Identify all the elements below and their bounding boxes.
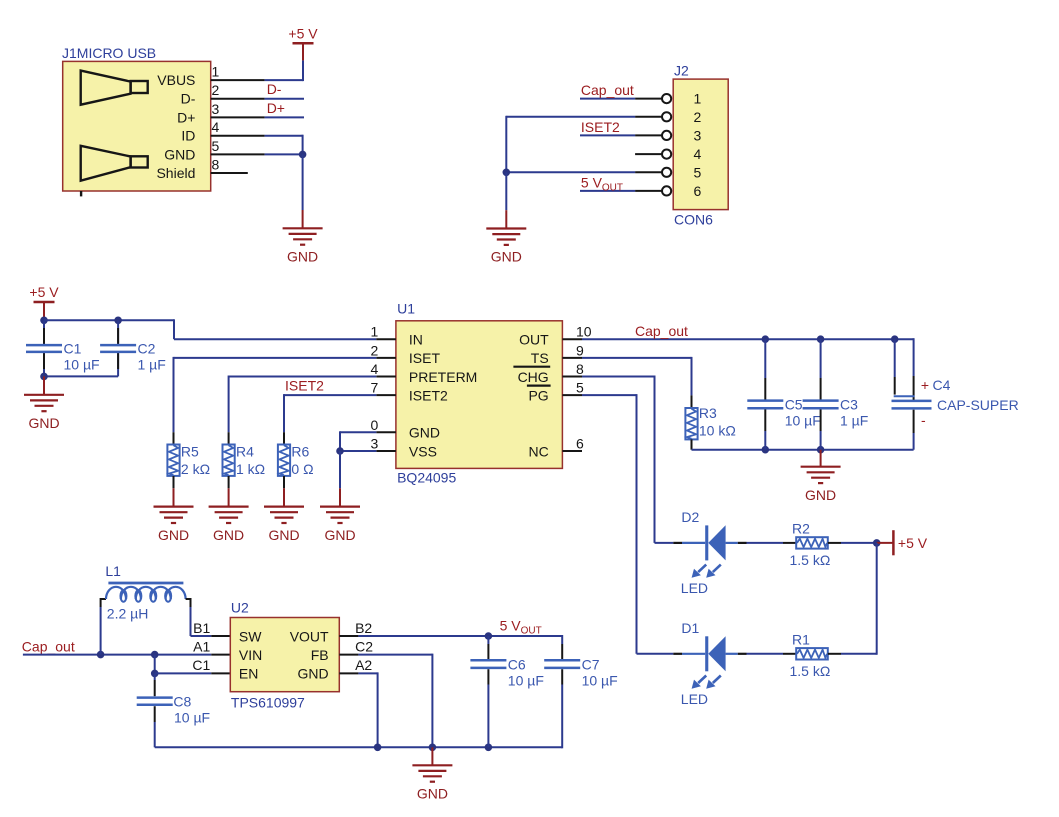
svg-text:4: 4	[212, 119, 220, 135]
capacitor C3	[820, 339, 822, 378]
svg-text:6: 6	[576, 436, 584, 452]
svg-text:VBUS: VBUS	[157, 72, 195, 88]
resistor R5	[173, 432, 175, 444]
svg-text:R4: R4	[236, 444, 254, 460]
junction bottom C6	[485, 744, 493, 752]
resistor R4	[228, 432, 230, 444]
wire PRETERM to R4	[229, 376, 377, 378]
wire to ground	[339, 451, 341, 488]
op-amp U1 BQ24095 box	[396, 321, 563, 469]
svg-text:-: -	[921, 412, 926, 428]
svg-text:+5 V: +5 V	[29, 284, 59, 300]
svg-text:1: 1	[694, 91, 702, 107]
svg-text:1.5 kΩ: 1.5 kΩ	[790, 552, 831, 568]
svg-text:TS: TS	[531, 350, 549, 366]
junction VOUT C6	[485, 632, 493, 640]
svg-text:C2: C2	[138, 341, 156, 357]
svg-text:GND: GND	[287, 249, 318, 265]
capacitor C8	[154, 673, 156, 680]
svg-text:TPS610997: TPS610997	[231, 694, 305, 710]
junction rail C5	[762, 335, 770, 343]
svg-text:GND: GND	[158, 527, 189, 543]
svg-text:3: 3	[371, 436, 379, 452]
connector J1 MICRO USB	[63, 61, 211, 191]
svg-text:R3: R3	[699, 405, 717, 421]
svg-text:1.5 kΩ: 1.5 kΩ	[790, 663, 831, 679]
ground (C3 rail)	[801, 467, 841, 503]
svg-text:10 µF: 10 µF	[64, 357, 100, 373]
LED D1	[673, 636, 746, 689]
svg-text:0: 0	[371, 417, 379, 433]
svg-text:Cap_out: Cap_out	[581, 82, 634, 98]
svg-text:7: 7	[371, 380, 379, 396]
junction bottom FB/gnd	[429, 744, 437, 752]
svg-text:R2: R2	[792, 520, 810, 536]
wire TS to R3	[582, 357, 692, 359]
junction rail at C2	[114, 317, 122, 325]
ground (J2)	[486, 229, 526, 265]
svg-text:10 µF: 10 µF	[174, 709, 210, 725]
svg-text:VSS: VSS	[409, 443, 437, 459]
resistor R3	[691, 395, 693, 408]
svg-text:1: 1	[212, 64, 220, 80]
wire to ground	[302, 154, 304, 210]
ground (R5)	[154, 507, 194, 543]
wire to ground (C3)	[820, 450, 822, 467]
svg-text:J1MICRO USB: J1MICRO USB	[62, 45, 156, 61]
wire +5V rail	[44, 319, 174, 321]
svg-text:+5 V: +5 V	[288, 25, 318, 41]
connector J2 CON6	[673, 79, 728, 210]
svg-text:A1: A1	[193, 638, 210, 654]
svg-text:GND: GND	[268, 527, 299, 543]
svg-text:CHG: CHG	[518, 369, 549, 385]
wire bottom rail (caps)	[692, 449, 914, 451]
svg-text:1 µF: 1 µF	[840, 413, 868, 429]
wire to ground	[43, 376, 45, 394]
ground (R6)	[264, 507, 304, 543]
wire C1-C2 bottom	[44, 375, 118, 377]
svg-text:PRETERM: PRETERM	[409, 369, 477, 385]
svg-text:Shield: Shield	[156, 165, 195, 181]
svg-text:J2: J2	[674, 62, 689, 78]
svg-text:+5 V: +5 V	[898, 535, 928, 551]
op-amp U2 TPS610997 box	[230, 618, 339, 692]
capacitor C4 CAP-SUPER	[894, 339, 896, 377]
junction J2 gnd	[503, 169, 511, 177]
wire J2 pin5	[506, 171, 635, 173]
resistor R6	[283, 432, 285, 444]
junction bottom C5	[762, 446, 770, 454]
svg-text:Cap_out: Cap_out	[635, 323, 688, 339]
inductor L1	[100, 607, 102, 655]
svg-text:FB: FB	[311, 647, 329, 663]
junction U1 gnd	[336, 447, 344, 455]
svg-text:GND: GND	[805, 487, 836, 503]
wire FB down	[358, 654, 432, 656]
svg-text:ISET2: ISET2	[409, 387, 448, 403]
svg-text:BQ24095: BQ24095	[397, 469, 456, 485]
+5V supply (J1)	[288, 25, 318, 43]
wire D+	[265, 116, 304, 118]
svg-text:2.2 µH: 2.2 µH	[107, 606, 149, 622]
wire J2 pin2 to gnd	[506, 116, 635, 118]
PG overline	[527, 385, 551, 387]
junction C8/EN	[151, 651, 159, 659]
svg-text:D2: D2	[681, 509, 699, 525]
wire ISET2 to R6	[284, 394, 376, 396]
svg-text:SW: SW	[239, 628, 262, 644]
svg-text:C6: C6	[508, 656, 526, 672]
svg-text:GND: GND	[491, 249, 522, 265]
junction rail C4	[891, 335, 899, 343]
USB plug glyph lower	[81, 146, 148, 181]
svg-text:EN: EN	[239, 666, 258, 682]
wire VBUS to +5V	[265, 79, 303, 81]
wire U1 GND pin	[340, 431, 376, 433]
svg-text:LED: LED	[681, 580, 708, 596]
svg-text:GND: GND	[324, 527, 355, 543]
svg-text:CAP-SUPER: CAP-SUPER	[937, 397, 1019, 413]
resistor R2	[783, 542, 796, 544]
wire U1 VSS pin	[340, 450, 376, 452]
J1 mount stub	[80, 191, 82, 196]
wire D1 to R1	[747, 653, 784, 655]
ground (C1)	[24, 395, 64, 431]
svg-text:VOUT: VOUT	[290, 628, 329, 644]
svg-text:NC: NC	[528, 443, 548, 459]
svg-text:B2: B2	[355, 620, 372, 636]
svg-text:GND: GND	[417, 786, 448, 802]
svg-text:6: 6	[694, 183, 702, 199]
svg-text:C1: C1	[64, 341, 82, 357]
wire bottom rail (U2)	[155, 746, 563, 748]
wire to ground (J2)	[505, 172, 507, 210]
svg-text:9: 9	[576, 342, 584, 358]
wire R2 to +5V	[841, 542, 877, 544]
svg-text:L1: L1	[105, 563, 121, 579]
svg-text:VIN: VIN	[239, 647, 262, 663]
capacitor C7	[561, 635, 563, 644]
svg-text:GND: GND	[164, 146, 195, 162]
svg-text:PG: PG	[528, 387, 548, 403]
svg-text:5 VOUT: 5 VOUT	[500, 618, 542, 637]
junction bottom C3	[817, 446, 825, 454]
svg-text:GND: GND	[28, 415, 59, 431]
svg-text:8: 8	[212, 157, 220, 173]
junction rail C3	[817, 335, 825, 343]
junction bottom A2	[374, 744, 382, 752]
svg-text:2: 2	[371, 342, 379, 358]
ground (U2 rail)	[412, 765, 452, 801]
junction C1 bottom	[40, 373, 48, 381]
svg-text:2 kΩ: 2 kΩ	[181, 461, 210, 477]
wire ID	[265, 135, 303, 137]
svg-text:2: 2	[694, 109, 702, 125]
junction +5V rail at C1	[40, 317, 48, 325]
svg-text:3: 3	[212, 101, 220, 117]
svg-text:4: 4	[694, 146, 702, 162]
svg-text:LED: LED	[681, 691, 708, 707]
ground (R4)	[209, 507, 249, 543]
wire D-	[265, 98, 304, 100]
svg-text:C8: C8	[173, 693, 191, 709]
svg-text:1: 1	[371, 324, 379, 340]
svg-text:U2: U2	[231, 599, 249, 615]
svg-text:R5: R5	[181, 444, 199, 460]
svg-text:R1: R1	[792, 631, 810, 647]
wire EN branch	[154, 655, 156, 674]
svg-text:10 µF: 10 µF	[582, 672, 618, 688]
wire to ground (U2)	[431, 747, 433, 765]
wire R1 up to +5V junction	[841, 653, 877, 655]
svg-text:2: 2	[212, 82, 220, 98]
wire GND pin	[265, 153, 303, 155]
svg-text:IN: IN	[409, 332, 423, 348]
svg-text:5: 5	[212, 138, 220, 154]
svg-text:GND: GND	[297, 666, 328, 682]
svg-text:U1: U1	[397, 301, 415, 317]
svg-text:3: 3	[694, 127, 702, 143]
junction J1 gnd	[299, 151, 307, 159]
svg-text:A2: A2	[355, 657, 372, 673]
svg-text:10 kΩ: 10 kΩ	[699, 423, 736, 439]
capacitor C2	[117, 320, 119, 344]
+5V supply (input filter)	[29, 284, 59, 302]
svg-text:1 µF: 1 µF	[138, 357, 166, 373]
capacitor C5	[764, 339, 766, 378]
USB plug glyph upper	[81, 71, 148, 105]
svg-text:C3: C3	[840, 397, 858, 413]
svg-text:C4: C4	[933, 377, 951, 393]
CHG overline	[513, 366, 550, 368]
capacitor C6	[487, 636, 489, 644]
junction L1	[97, 651, 105, 659]
wire PG to D1	[582, 394, 637, 396]
svg-text:+: +	[921, 377, 929, 393]
wire OUT rail Cap_out	[582, 338, 914, 340]
svg-text:1 kΩ: 1 kΩ	[236, 461, 265, 477]
svg-text:D-: D-	[267, 81, 282, 97]
+5V supply (LEDs)	[877, 542, 894, 544]
svg-text:D+: D+	[177, 109, 195, 125]
capacitor C1	[43, 320, 45, 344]
svg-text:C5: C5	[785, 397, 803, 413]
svg-text:C7: C7	[582, 656, 600, 672]
junction +5V (R2)	[873, 539, 881, 547]
svg-text:GND: GND	[409, 425, 440, 441]
resistor R1	[783, 653, 796, 655]
svg-text:R6: R6	[291, 444, 309, 460]
wire J2 pin6 5V_OUT	[580, 190, 635, 192]
svg-text:C2: C2	[355, 638, 373, 654]
wire CHG to D2	[582, 376, 655, 378]
svg-text:ISET: ISET	[409, 350, 441, 366]
svg-text:B1: B1	[193, 620, 210, 636]
svg-text:10 µF: 10 µF	[785, 413, 821, 429]
svg-text:ISET2: ISET2	[581, 119, 620, 135]
svg-text:OUT: OUT	[519, 332, 549, 348]
svg-text:5: 5	[576, 380, 584, 396]
wire Cap_out to U2	[23, 654, 211, 656]
wire J2 pin3 ISET2	[580, 134, 635, 136]
svg-text:0 Ω: 0 Ω	[291, 461, 313, 477]
ground (U1)	[320, 507, 360, 543]
svg-text:D+: D+	[267, 100, 285, 116]
svg-text:CON6: CON6	[674, 212, 713, 228]
svg-text:10 µF: 10 µF	[508, 672, 544, 688]
svg-text:4: 4	[371, 361, 379, 377]
wire VOUT rail	[358, 635, 562, 637]
svg-text:10: 10	[576, 324, 592, 340]
svg-text:D-: D-	[181, 91, 196, 107]
svg-text:D1: D1	[681, 620, 699, 636]
wire J2 pin1 Cap_out	[580, 98, 635, 100]
wire D2 to R2	[747, 542, 784, 544]
svg-text:5: 5	[694, 164, 702, 180]
svg-text:8: 8	[576, 361, 584, 377]
svg-text:Cap_out: Cap_out	[22, 638, 75, 654]
svg-text:ISET2: ISET2	[285, 378, 324, 394]
ground (J1)	[283, 228, 323, 264]
junction EN	[151, 670, 159, 678]
LED D2	[673, 525, 746, 578]
svg-text:GND: GND	[213, 527, 244, 543]
wire ISET to R5	[174, 357, 377, 359]
svg-text:ID: ID	[181, 128, 195, 144]
svg-text:C1: C1	[192, 657, 210, 673]
wire A2 down	[358, 672, 377, 674]
